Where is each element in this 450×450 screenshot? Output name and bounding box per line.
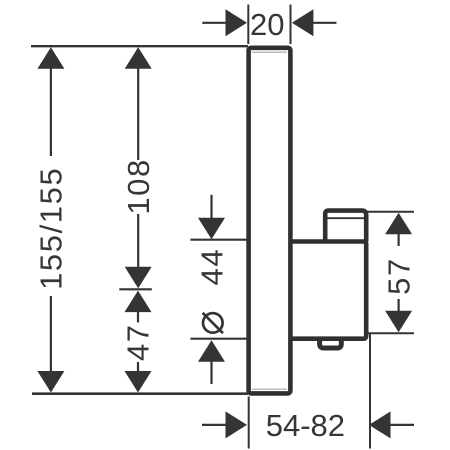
plate inner edge line bottom — [252, 388, 287, 390]
dim 47: bottom arrowhead — [125, 371, 152, 393]
bottom extension line (155/47) — [32, 392, 248, 395]
dim 20: extension line left — [247, 5, 249, 45]
svg-text:47: 47 — [121, 323, 156, 361]
dim 20: extension line right — [290, 5, 292, 45]
dim 44: lower stem — [210, 361, 212, 384]
dim 20: right stem — [313, 22, 337, 24]
dim 108/47: junction tick — [119, 288, 152, 290]
dim 54-82: right arrowhead — [369, 411, 391, 438]
dim 57: lower stem — [398, 299, 400, 312]
dim 108: lower stem — [137, 214, 139, 269]
dim 57: upper extension tick — [367, 211, 414, 213]
dim 155/155: bottom arrowhead — [37, 371, 64, 393]
dim 20: left arrowhead — [226, 9, 248, 36]
dim 44: bottom arrowhead (pointing up) — [198, 340, 225, 362]
dim 57: upper stem — [398, 233, 400, 246]
svg-text:44: 44 — [194, 248, 229, 286]
svg-text:108: 108 — [121, 158, 156, 215]
dim 44: upper extension tick — [190, 239, 247, 241]
dim 108: upper stem — [137, 68, 139, 160]
dim 155/155: top arrowhead — [37, 47, 64, 69]
dim 155/155: upper stem — [50, 68, 52, 156]
dim 44: top arrowhead (pointing down) — [198, 218, 225, 240]
dim 44: upper stem — [210, 195, 212, 220]
dim 155/155: lower stem — [50, 296, 52, 373]
dim 57: lower extension tick — [366, 332, 414, 334]
dim 47: upper stem — [137, 311, 139, 323]
dim 108: top arrowhead — [125, 47, 152, 69]
cap seam line — [328, 217, 365, 219]
dim 57: top arrowhead (pointing up) — [385, 213, 412, 235]
diameter symbol — [203, 313, 223, 333]
dim 54-82: left extension line — [248, 397, 250, 449]
svg-text:20: 20 — [250, 7, 284, 42]
dim 108: bottom arrowhead — [125, 267, 152, 289]
dim 54-82: left arrowhead — [226, 411, 248, 438]
dim 54-82: right stem — [390, 424, 415, 426]
dim 57: bottom arrowhead (pointing down) — [385, 311, 412, 333]
top extension line (155/108) — [31, 45, 248, 47]
dim 54-82: right extension line — [369, 334, 371, 449]
plate inner edge line top — [252, 51, 287, 53]
handle body side view — [292, 242, 366, 339]
dim 20: right arrowhead — [292, 9, 314, 36]
svg-text:155/155: 155/155 — [33, 167, 68, 290]
bottom tab of handle body — [320, 339, 342, 348]
dim 44: lower extension tick — [190, 338, 247, 340]
handle cap side view — [325, 211, 366, 242]
dim 20: left stem — [202, 22, 226, 24]
svg-text:54-82: 54-82 — [266, 408, 345, 443]
wall plate front view — [249, 48, 291, 394]
svg-text:57: 57 — [381, 257, 416, 295]
dim 47: lower stem — [137, 362, 139, 372]
dim 54-82: left stem — [202, 424, 227, 426]
dim 47: top arrowhead — [125, 291, 152, 313]
